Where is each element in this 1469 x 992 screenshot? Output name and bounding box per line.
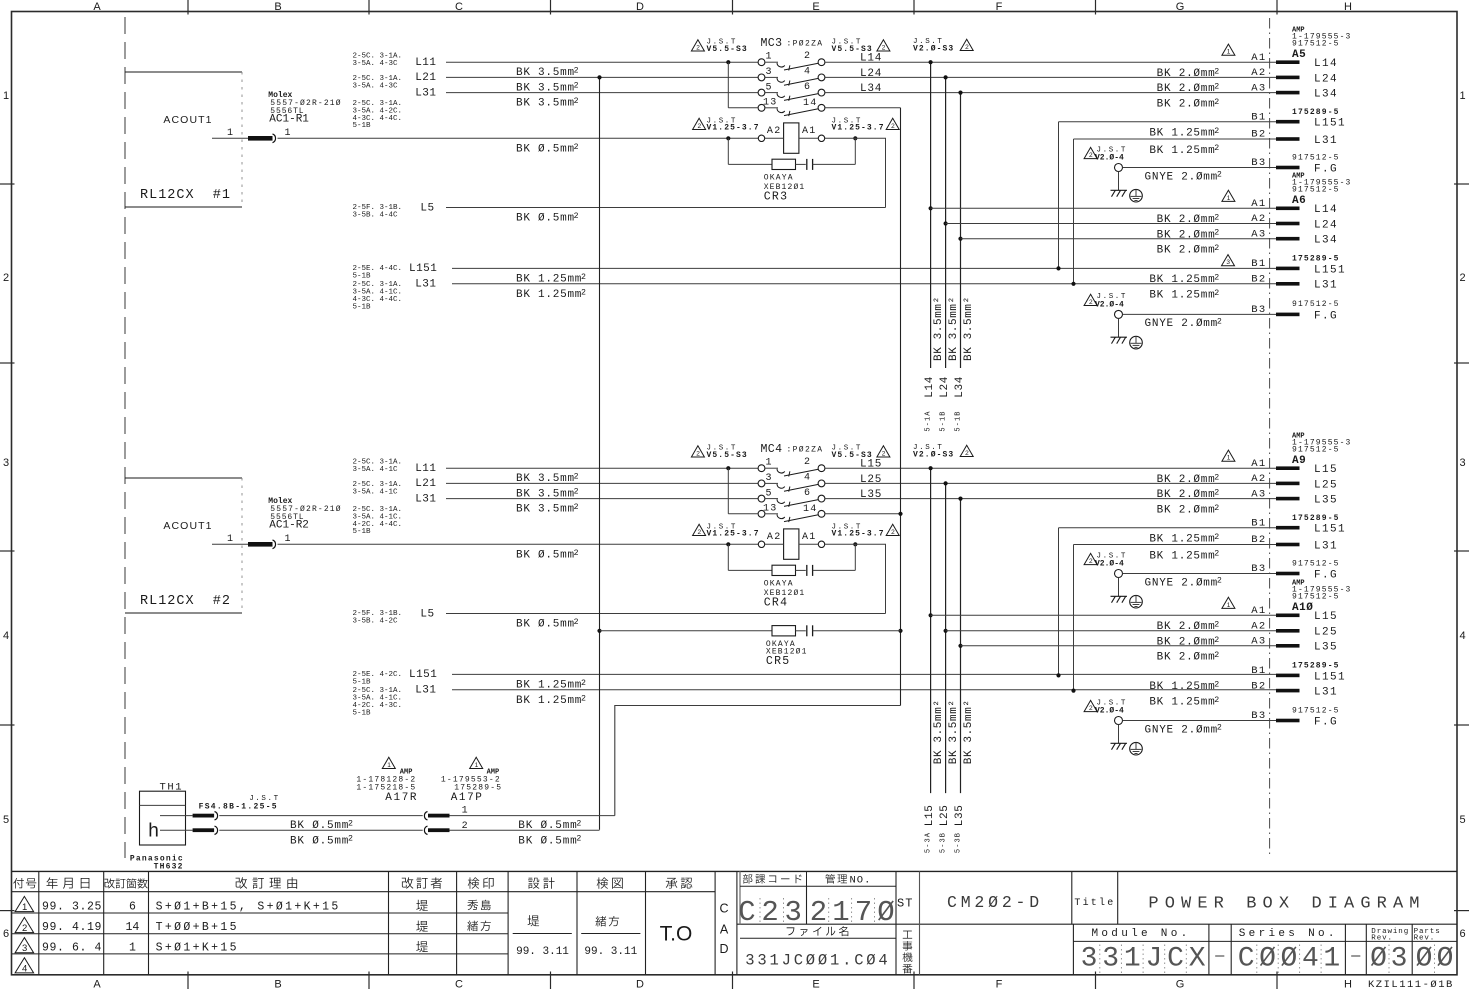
svg-text:99. 3.11: 99. 3.11 [584, 946, 637, 958]
svg-text:13: 13 [763, 98, 777, 109]
svg-text:L151: L151 [1314, 671, 1346, 683]
revision table headers [13, 878, 24, 889]
svg-text:H: H [1344, 979, 1352, 991]
wire 14-output to TH1 return [615, 706, 901, 816]
svg-text:L5: L5 [420, 608, 434, 620]
svg-text:5: 5 [3, 814, 9, 826]
svg-text:4: 4 [1459, 630, 1465, 642]
svg-text:BK 2.Ømm2: BK 2.Ømm2 [1157, 473, 1220, 486]
svg-text:ST: ST [897, 897, 914, 911]
svg-text:5-1B: 5-1B [353, 272, 372, 280]
svg-text:BK 1.25mm2: BK 1.25mm2 [516, 694, 587, 707]
svg-text:L31: L31 [1314, 280, 1338, 292]
svg-text:A1: A1 [802, 532, 817, 543]
svg-text:L24: L24 [939, 376, 951, 398]
svg-text:A1: A1 [1251, 198, 1266, 210]
svg-text:D: D [719, 942, 728, 956]
feeder A-B2 [1074, 544, 1277, 546]
protective earth symbol A9 [1130, 595, 1143, 608]
svg-text:A: A [720, 922, 729, 936]
svg-text:AC1-R1: AC1-R1 [269, 114, 309, 126]
A5 pin B1 terminal L151 [1276, 120, 1300, 124]
svg-text:3: 3 [3, 457, 9, 469]
svg-text:KZIL111-Ø1B: KZIL111-Ø1B [1368, 979, 1454, 991]
svg-text:BK Ø.5mm2: BK Ø.5mm2 [516, 618, 579, 631]
svg-text:T+ØØ+B+15: T+ØØ+B+15 [156, 921, 239, 934]
svg-text:C: C [455, 1, 463, 13]
ground terminal ring A10 [1115, 717, 1123, 725]
svg-text:B1: B1 [1251, 258, 1266, 270]
svg-text:2: 2 [1089, 299, 1093, 306]
svg-text:F.G: F.G [1314, 310, 1338, 322]
svg-text:3: 3 [1459, 457, 1465, 469]
svg-text:L31: L31 [415, 279, 436, 291]
svg-text:3-5A. 4-3C: 3-5A. 4-3C [353, 83, 399, 91]
snubber CR5 OKAYA XEB1201 [600, 630, 773, 632]
svg-text:L14: L14 [1314, 204, 1338, 216]
svg-text:2: 2 [696, 450, 700, 457]
svg-text:POWER BOX DIAGRAM: POWER BOX DIAGRAM [1148, 895, 1425, 914]
svg-text:L34: L34 [1314, 235, 1338, 247]
svg-text:Ø: Ø [1259, 943, 1276, 974]
svg-text:A6: A6 [1292, 195, 1306, 207]
wire coil A1 to L5 [825, 544, 886, 613]
designer/checker/approver [528, 915, 540, 926]
relay unit block #2 [125, 477, 242, 479]
svg-text:V1.25-3.7: V1.25-3.7 [707, 530, 760, 539]
svg-text:MC3: MC3 [761, 37, 783, 50]
svg-text:A2: A2 [1251, 621, 1266, 633]
svg-text:A2: A2 [1251, 213, 1266, 225]
chassis ground A9 [1118, 578, 1120, 597]
svg-text:2: 2 [965, 44, 969, 51]
title block revision table [12, 870, 1457, 872]
J.S.T V2.0-4 A6 [1084, 294, 1097, 305]
svg-text:1: 1 [1227, 455, 1231, 462]
svg-text:3: 3 [766, 473, 772, 484]
svg-text:L31: L31 [1314, 540, 1338, 552]
A6 pin B1 terminal L151 [1276, 267, 1300, 271]
svg-text:L35: L35 [860, 489, 882, 501]
svg-text:BK 3.5mm²: BK 3.5mm² [933, 699, 945, 764]
svg-text:BK Ø.5mm2: BK Ø.5mm2 [516, 212, 579, 225]
svg-text:CR5: CR5 [766, 655, 791, 668]
svg-text:L34: L34 [1314, 89, 1338, 101]
svg-text:T.O: T.O [660, 923, 693, 946]
svg-text:99. 3.25: 99. 3.25 [42, 900, 102, 913]
svg-text:Series No.: Series No. [1239, 928, 1338, 940]
thermostat TH1 [140, 791, 186, 845]
A6 pin A3 terminal L34 [1276, 237, 1300, 241]
svg-text:BK 1.25mm2: BK 1.25mm2 [1149, 289, 1220, 302]
svg-text:C: C [1167, 943, 1184, 974]
svg-text:331JCØØ1.CØ4: 331JCØØ1.CØ4 [745, 951, 890, 969]
A5 pin A3 terminal L34 [1276, 91, 1300, 95]
svg-text:2: 2 [891, 529, 895, 536]
svg-text:ACOUT1: ACOUT1 [163, 114, 212, 126]
svg-text:GNYE 2.Ømm2: GNYE 2.Ømm2 [1145, 318, 1223, 331]
svg-text:L25: L25 [939, 805, 951, 827]
warning triangle A9 A1 [1222, 450, 1235, 461]
svg-text:A3: A3 [1251, 228, 1266, 240]
svg-text:1: 1 [3, 90, 9, 102]
svg-text:L15: L15 [860, 459, 882, 471]
svg-text:BK 2.Ømm2: BK 2.Ømm2 [1157, 504, 1220, 517]
svg-text:1: 1 [1227, 49, 1231, 56]
A9 pin A2 terminal L25 [1276, 482, 1300, 486]
svg-text:BK 3.5mm²: BK 3.5mm² [948, 296, 960, 361]
svg-text:L24: L24 [1314, 219, 1338, 231]
A10 pin B1 terminal L151 [1276, 674, 1300, 678]
svg-text:L151: L151 [1314, 524, 1346, 536]
svg-text:X: X [1189, 943, 1206, 974]
svg-text:L21: L21 [415, 72, 436, 84]
file name cell [740, 937, 896, 939]
svg-text:B: B [274, 979, 281, 991]
svg-text:4: 4 [1302, 943, 1319, 974]
svg-text:Rev.: Rev. [1371, 935, 1393, 943]
svg-text:917512-5: 917512-5 [1292, 445, 1340, 454]
protective earth symbol A5 [1130, 189, 1143, 202]
warning triangle A6 A1 [1222, 190, 1235, 201]
svg-text:BK 2.Ømm2: BK 2.Ømm2 [1157, 651, 1220, 664]
svg-text:2: 2 [1459, 272, 1465, 284]
svg-text:917512-5: 917512-5 [1292, 300, 1340, 309]
A9 pin B2 terminal L31 [1276, 543, 1300, 547]
svg-text:MC4: MC4 [761, 443, 783, 456]
svg-text:917512-5: 917512-5 [1292, 186, 1340, 195]
wire L1x tap to contact 13 [726, 60, 730, 64]
chassis ground A6 [1118, 318, 1120, 337]
svg-text:BK 3.5mm2: BK 3.5mm2 [516, 473, 579, 486]
svg-text:CR4: CR4 [764, 596, 789, 609]
svg-text:2: 2 [1089, 558, 1093, 565]
svg-text:6: 6 [804, 82, 810, 93]
svg-text:99. 6. 4: 99. 6. 4 [42, 942, 102, 955]
svg-text:L35: L35 [954, 805, 966, 827]
revision rows [15, 896, 33, 911]
svg-text:Title: Title [1074, 897, 1115, 909]
svg-text:RL12CX #2: RL12CX #2 [140, 594, 231, 609]
warning triangle A6 B1 [1222, 255, 1235, 266]
A5 pin B2 terminal L31 [1276, 137, 1300, 141]
svg-text:2: 2 [882, 450, 886, 457]
ground terminal ring A9 [1115, 570, 1123, 578]
J.S.T V2.0-4 A5 [1084, 147, 1097, 158]
svg-text:5: 5 [766, 488, 772, 499]
A5 pin A2 terminal L24 [1276, 76, 1300, 80]
svg-text:L31: L31 [415, 87, 436, 99]
svg-text:2: 2 [882, 44, 886, 51]
svg-text:1: 1 [766, 51, 772, 62]
svg-text:A2: A2 [1251, 67, 1266, 79]
svg-text:99. 4.19: 99. 4.19 [42, 921, 102, 934]
svg-text:14: 14 [803, 98, 817, 109]
svg-text:GNYE 2.Ømm2: GNYE 2.Ømm2 [1145, 171, 1223, 184]
svg-text:F: F [996, 1, 1003, 13]
svg-text:1: 1 [832, 896, 849, 929]
svg-text:4: 4 [804, 473, 810, 484]
ground terminal ring A6 [1115, 310, 1123, 318]
svg-text:5-3A: 5-3A [924, 832, 932, 853]
svg-text:Rev.: Rev. [1414, 935, 1436, 943]
svg-text:BK Ø.5mm2: BK Ø.5mm2 [518, 835, 582, 848]
code box [739, 871, 741, 924]
svg-text:BK 2.Ømm2: BK 2.Ømm2 [1157, 244, 1220, 257]
svg-text:B: B [274, 1, 281, 13]
svg-text:D: D [636, 1, 644, 13]
connector A17P AMP [470, 757, 483, 768]
bus verticals L14 [930, 62, 932, 368]
svg-text:C: C [1238, 943, 1255, 974]
svg-text:13: 13 [763, 504, 777, 515]
svg-text:BK 3.5mm2: BK 3.5mm2 [516, 67, 579, 80]
svg-text:L31: L31 [415, 685, 436, 697]
svg-text:FS4.8B-1.25-5: FS4.8B-1.25-5 [199, 803, 278, 812]
svg-text:BK 1.25mm2: BK 1.25mm2 [1149, 696, 1220, 709]
svg-text:BK 3.5mm2: BK 3.5mm2 [516, 97, 579, 110]
svg-text:OKAYA: OKAYA [764, 173, 794, 182]
svg-text:BK 3.5mm²: BK 3.5mm² [948, 699, 960, 764]
wire L21 feed down to TH1 [599, 77, 601, 829]
svg-text:5-1B: 5-1B [353, 304, 372, 312]
svg-text:BK 3.5mm2: BK 3.5mm2 [516, 488, 579, 501]
svg-text:F: F [996, 979, 1003, 991]
svg-text:A2: A2 [1251, 473, 1266, 485]
svg-text:5-1B: 5-1B [954, 410, 962, 431]
svg-text:917512-5: 917512-5 [1292, 559, 1340, 568]
svg-text:2: 2 [1089, 152, 1093, 159]
svg-text:1: 1 [1227, 195, 1231, 202]
svg-text:2: 2 [965, 450, 969, 457]
svg-text:Module No.: Module No. [1091, 928, 1190, 940]
svg-text:1: 1 [1124, 943, 1141, 974]
svg-text:H: H [1344, 1, 1352, 13]
svg-text:L14: L14 [860, 53, 882, 65]
svg-text:175289-5: 175289-5 [454, 783, 502, 792]
contact 14 output [825, 513, 901, 515]
svg-text:BK 2.Ømm2: BK 2.Ømm2 [1157, 67, 1220, 80]
svg-text:L15: L15 [1314, 611, 1338, 623]
svg-text:C: C [455, 979, 463, 991]
svg-text:A3: A3 [1251, 82, 1266, 94]
svg-text:2: 2 [761, 896, 778, 929]
svg-text:BK 2.Ømm2: BK 2.Ømm2 [1157, 229, 1220, 242]
svg-text:L35: L35 [1314, 642, 1338, 654]
svg-text:5-1B: 5-1B [939, 410, 947, 431]
svg-text:2: 2 [697, 123, 701, 130]
feeder A-B1 [1059, 527, 1277, 529]
svg-text:E: E [812, 979, 819, 991]
svg-text:AC1-R2: AC1-R2 [269, 520, 309, 532]
svg-text:BK 1.25mm2: BK 1.25mm2 [516, 288, 587, 301]
coil MC4 A2-A1 [758, 541, 764, 547]
svg-text:A: A [93, 1, 101, 13]
svg-text:175289-5: 175289-5 [1292, 662, 1340, 671]
svg-text:L11: L11 [415, 463, 436, 475]
svg-text:5-1B: 5-1B [353, 678, 372, 686]
svg-text:2: 2 [3, 272, 9, 284]
svg-text:BK 1.25mm2: BK 1.25mm2 [1149, 533, 1220, 546]
svg-text:B1: B1 [1251, 111, 1266, 123]
svg-text:L25: L25 [1314, 479, 1338, 491]
svg-text:V2.Ø-4: V2.Ø-4 [1095, 300, 1124, 309]
svg-text:J: J [1145, 943, 1162, 974]
svg-text:BK 3.5mm2: BK 3.5mm2 [516, 82, 579, 95]
svg-text:5-1B: 5-1B [353, 710, 372, 718]
svg-text:B2: B2 [1251, 534, 1266, 546]
svg-text:h: h [148, 821, 159, 842]
svg-text:S+Ø1+B+15, S+Ø1+K+15: S+Ø1+B+15, S+Ø1+K+15 [156, 900, 341, 913]
protective earth symbol A6 [1130, 336, 1143, 349]
svg-text:5-3B: 5-3B [954, 832, 962, 853]
svg-text:L24: L24 [860, 68, 882, 80]
svg-text:GNYE 2.Ømm2: GNYE 2.Ømm2 [1145, 724, 1223, 737]
svg-text:V2.Ø-S3: V2.Ø-S3 [913, 451, 954, 460]
koji-kiban vertical [903, 931, 912, 939]
warning triangle A10 A1 [1222, 597, 1235, 608]
snubber CR3 OKAYA XEB1201 [726, 136, 730, 140]
svg-text:3: 3 [784, 896, 801, 929]
svg-text:3-5B. 4-4C: 3-5B. 4-4C [353, 211, 399, 219]
switched wires to bus [825, 61, 1276, 63]
svg-text:BK 3.5mm²: BK 3.5mm² [963, 296, 975, 361]
svg-text:BK 2.Ømm2: BK 2.Ømm2 [1157, 83, 1220, 96]
svg-text:BK 1.25mm2: BK 1.25mm2 [1149, 681, 1220, 694]
svg-text:1: 1 [387, 762, 391, 769]
wire coil A1 to L5 [825, 138, 886, 207]
branches to lower connector rows [929, 613, 933, 617]
svg-text:A1: A1 [1251, 605, 1266, 617]
svg-text:V2.Ø-S3: V2.Ø-S3 [913, 45, 954, 54]
svg-text:V2.Ø-4: V2.Ø-4 [1095, 706, 1124, 715]
svg-text:1: 1 [285, 534, 291, 545]
svg-text:3-5A. 4-1C: 3-5A. 4-1C [353, 466, 399, 474]
chassis ground A10 [1118, 725, 1120, 744]
svg-text:A1: A1 [802, 126, 817, 137]
svg-text:2: 2 [804, 51, 810, 62]
warning triangle A5 A1 [1222, 44, 1235, 55]
branches to lower connector rows [929, 206, 933, 210]
svg-text:5-1B: 5-1B [353, 122, 372, 130]
svg-text:1: 1 [22, 902, 27, 913]
svg-text:BK 1.25mm2: BK 1.25mm2 [1149, 127, 1220, 140]
svg-text:B2: B2 [1251, 680, 1266, 692]
svg-text:V2.Ø-4: V2.Ø-4 [1095, 559, 1124, 568]
snubber CR4 OKAYA XEB1201 [726, 542, 730, 546]
svg-text:Ø: Ø [1280, 943, 1297, 974]
svg-text:L151: L151 [1314, 118, 1346, 130]
svg-text:3-5A. 4-1C: 3-5A. 4-1C [353, 489, 399, 497]
svg-text:6: 6 [129, 900, 136, 913]
svg-text:1: 1 [227, 128, 233, 139]
svg-text:175289-5: 175289-5 [1292, 108, 1340, 117]
svg-text:99. 3.11: 99. 3.11 [516, 946, 569, 958]
svg-text:6: 6 [1459, 928, 1465, 940]
svg-text:BK Ø.5mm2: BK Ø.5mm2 [516, 549, 579, 562]
svg-text:F.G: F.G [1314, 163, 1338, 175]
svg-text:1: 1 [475, 762, 479, 769]
svg-text:A9: A9 [1292, 455, 1306, 467]
svg-text:2: 2 [804, 457, 810, 468]
A9 pin A3 terminal L35 [1276, 497, 1300, 501]
svg-text:L24: L24 [1314, 73, 1338, 85]
svg-text:14: 14 [803, 504, 817, 515]
svg-text:V5.5-S3: V5.5-S3 [707, 451, 748, 460]
svg-text:—: — [1214, 948, 1225, 965]
svg-text:TH1: TH1 [160, 781, 184, 793]
svg-text:A2: A2 [767, 126, 782, 137]
svg-text:917512-5: 917512-5 [1292, 153, 1340, 162]
svg-text:Ø: Ø [877, 896, 894, 929]
svg-text:G: G [1176, 1, 1185, 13]
feeder A-B2 [1074, 138, 1277, 140]
svg-text:L21: L21 [415, 478, 436, 490]
svg-text::PØ2ZA: :PØ2ZA [787, 446, 824, 455]
contactor MC4 contacts 1-2,3-4,5-6,13-14 [758, 465, 765, 472]
svg-text:E: E [812, 1, 819, 13]
svg-text:2: 2 [697, 529, 701, 536]
svg-text:L14: L14 [1314, 58, 1338, 70]
svg-text:Ø: Ø [1437, 943, 1454, 974]
svg-text:1: 1 [129, 942, 136, 955]
svg-text:A5: A5 [1292, 49, 1306, 61]
A10 pin B3 terminal F.G [1276, 719, 1300, 723]
svg-text:V1.25-3.7: V1.25-3.7 [832, 124, 885, 133]
A5 pin A1 terminal L14 [1276, 60, 1300, 64]
svg-text:L15: L15 [1314, 464, 1338, 476]
chassis ground A5 [1118, 172, 1120, 191]
svg-text:F.G: F.G [1314, 569, 1338, 581]
svg-text:L31: L31 [1314, 687, 1338, 699]
svg-text:3: 3 [1102, 943, 1119, 974]
svg-text:BK 2.Ømm2: BK 2.Ømm2 [1157, 214, 1220, 227]
A9 pin B3 terminal F.G [1276, 572, 1300, 576]
svg-text:L11: L11 [415, 57, 436, 69]
svg-text:5: 5 [766, 82, 772, 93]
svg-text:3-5B. 4-2C: 3-5B. 4-2C [353, 617, 399, 625]
svg-text:CR3: CR3 [764, 190, 789, 203]
svg-text:3: 3 [1391, 943, 1408, 974]
svg-text:BK 3.5mm²: BK 3.5mm² [933, 296, 945, 361]
svg-text:L34: L34 [954, 376, 966, 398]
svg-text:1: 1 [285, 128, 291, 139]
feeder A-B1 [1059, 121, 1277, 123]
svg-text:L25: L25 [860, 474, 882, 486]
svg-text:BK 2.Ømm2: BK 2.Ømm2 [1157, 98, 1220, 111]
svg-text:6: 6 [3, 928, 9, 940]
svg-text:A1: A1 [1251, 458, 1266, 470]
svg-text:175289-5: 175289-5 [1292, 514, 1340, 523]
svg-text:2: 2 [1089, 705, 1093, 712]
contactor MC3 contacts 1-2,3-4,5-6,13-14 [758, 59, 765, 66]
svg-text:917512-5: 917512-5 [1292, 593, 1340, 602]
A6 pin A2 terminal L24 [1276, 222, 1300, 226]
svg-text:5-3B: 5-3B [939, 832, 947, 853]
connector boundary chain line right [1269, 18, 1271, 858]
svg-text:1: 1 [462, 805, 468, 816]
svg-text:3: 3 [1226, 259, 1230, 266]
svg-text:L34: L34 [860, 83, 882, 95]
svg-text:V2.Ø-4: V2.Ø-4 [1095, 153, 1124, 162]
svg-text:3: 3 [22, 943, 27, 954]
wire MC3-14 output down to MC4-14 and CR5 [900, 108, 902, 706]
svg-text:B2: B2 [1251, 274, 1266, 286]
svg-text:BK 2.Ømm2: BK 2.Ømm2 [1157, 489, 1220, 502]
svg-text:D: D [636, 979, 644, 991]
svg-text:C: C [738, 896, 755, 929]
svg-text:5: 5 [1459, 814, 1465, 826]
